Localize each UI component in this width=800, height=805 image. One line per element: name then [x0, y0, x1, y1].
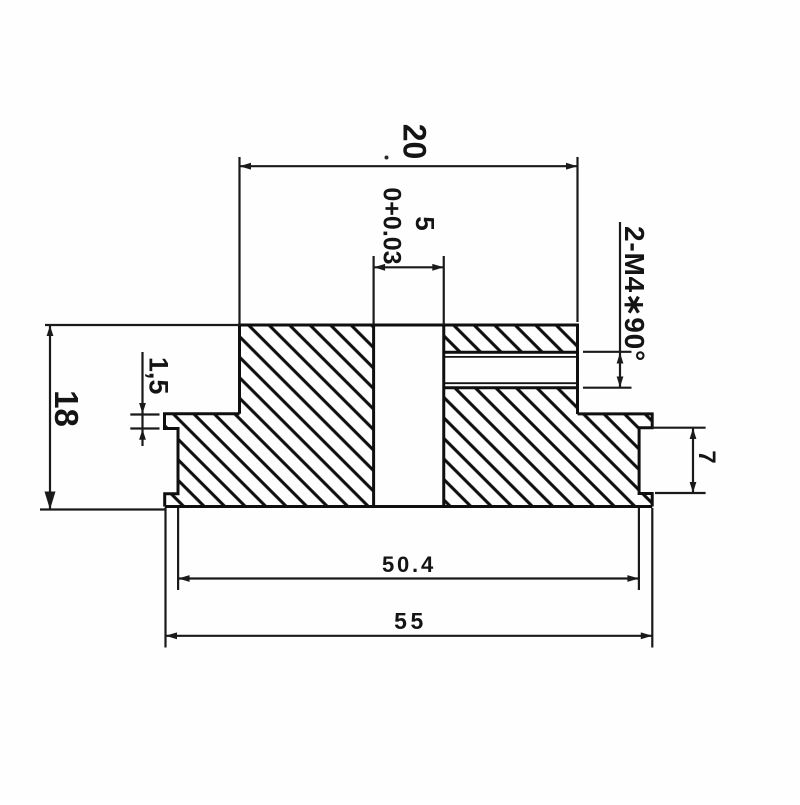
dimension 7: top arrow: [690, 428, 697, 439]
dimension 18: top arrow: [47, 326, 54, 337]
M4 channel lower lines: [444, 382, 578, 384]
M4 hole channel white cutout: [444, 351, 578, 389]
hatched flange section: [165, 414, 653, 507]
dimension 50.4: extension lines: [178, 508, 639, 590]
dimension 20: extension lines: [240, 157, 578, 325]
dimension 18: bottom arrow: [45, 492, 56, 510]
dimension 50.4: left arrow: [178, 575, 190, 582]
dimension 55: left arrow: [166, 632, 178, 639]
svg-text:55: 55: [394, 608, 427, 634]
svg-text:50.4: 50.4: [382, 552, 436, 577]
dimension 7: bottom arrow: [690, 482, 697, 493]
svg-text:0+0.03: 0+0.03: [378, 187, 406, 264]
thread callout 2-M4*90: leader line: [619, 222, 621, 387]
dimension 5: right arrow: [432, 264, 443, 271]
dimension 5: dimension line: [374, 266, 444, 268]
M4 channel upper lines: [444, 351, 578, 354]
svg-text:20: 20: [396, 124, 432, 160]
bore right edge: [442, 325, 445, 507]
dimension 7: dimension line: [692, 428, 694, 493]
svg-text:2-M4∗90°: 2-M4∗90°: [619, 226, 650, 362]
flange outline left: [165, 414, 240, 507]
stray dot: [385, 156, 389, 160]
hatched hub section: [240, 325, 578, 414]
dimension 5 +0.03/0: extension lines: [374, 256, 444, 325]
thread callout: extension lines: [583, 352, 632, 388]
dimension 20: right arrow: [566, 163, 578, 170]
svg-text:1,5: 1,5: [144, 357, 174, 395]
svg-text:5: 5: [410, 216, 440, 230]
dimension 20: dimension line: [240, 165, 578, 167]
dimension 50.4: right arrow: [627, 575, 639, 582]
dimension 20: left arrow: [240, 163, 252, 170]
svg-text:18: 18: [48, 390, 85, 427]
hub outline: [240, 325, 578, 414]
thread callout: upper arrow: [617, 353, 624, 364]
dimension 7: extension lines: [652, 428, 705, 493]
dimension 1,5: upper leader with down arrow: [141, 352, 143, 446]
flange outline right: [578, 414, 653, 507]
dimension 5: left arrow: [374, 264, 386, 271]
dimension 55: dimension line: [166, 635, 653, 637]
dimension 18: top extension line: [45, 324, 240, 326]
dimension 1,5: lower leader with up arrow: [139, 429, 146, 440]
dimension 55: right arrow: [641, 632, 653, 639]
dimension 55: extension lines: [166, 508, 653, 648]
svg-text:7: 7: [693, 450, 720, 463]
bore slot white cutout: [374, 323, 444, 507]
dimension 18: bottom extension line: [40, 508, 165, 510]
bore left edge: [372, 325, 375, 507]
flange bottom outline: [165, 505, 653, 508]
dimension 1,5: tick extension lines: [130, 415, 159, 429]
dimension 18: dimension line: [49, 325, 51, 510]
thread callout: lower arrow: [617, 377, 624, 388]
dimension 50.4: dimension line: [178, 577, 639, 579]
